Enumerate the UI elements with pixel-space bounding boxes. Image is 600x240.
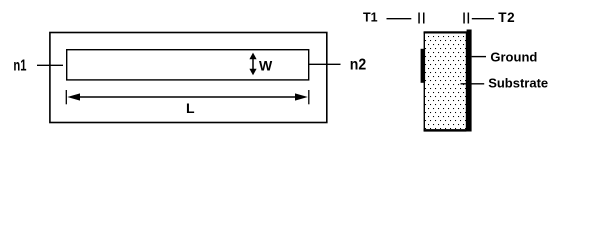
svg-text:W: W — [259, 58, 273, 74]
wire Ground pointer — [472, 56, 486, 58]
microstrip outer box (top view) — [50, 33, 327, 123]
wire T1 lead — [387, 18, 412, 20]
svg-text:L: L — [186, 100, 195, 116]
wire Substrate pointer — [461, 83, 485, 85]
ground plane bar (cross-section) — [467, 30, 472, 132]
substrate body (stippled) — [424, 32, 467, 131]
dimension arrow L — [66, 90, 308, 104]
wire n2 lead — [309, 63, 341, 65]
microstrip conductor strip (top view) — [67, 50, 309, 80]
T1 port marker || — [418, 13, 424, 24]
svg-text:T1: T1 — [363, 11, 378, 25]
dimension arrow W — [249, 53, 256, 76]
T2 port marker || — [463, 13, 469, 24]
svg-text:Ground: Ground — [490, 49, 537, 64]
wire n1 lead — [37, 64, 63, 66]
svg-text:Substrate: Substrate — [488, 75, 548, 90]
svg-text:n2: n2 — [350, 55, 366, 73]
svg-text:T2: T2 — [498, 10, 515, 25]
svg-text:n1: n1 — [13, 55, 26, 74]
wire T2 lead — [472, 18, 494, 20]
strip conductor bar (cross-section) — [421, 49, 426, 83]
